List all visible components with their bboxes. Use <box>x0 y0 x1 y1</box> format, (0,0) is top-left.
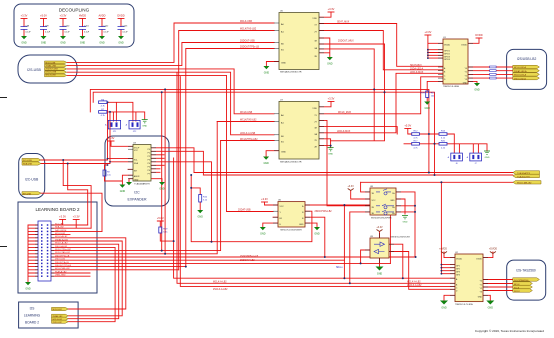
power V bird U8 <box>348 185 355 191</box>
transistor U2 TAS2560 bottom right IC <box>450 252 488 306</box>
wire U6 out A to vertical down <box>305 205 390 278</box>
svg-text:POR: POR <box>420 93 425 95</box>
resistor RA4 series <box>490 77 497 79</box>
wire U5 GND pin left <box>266 62 279 67</box>
page edge tick left upper <box>0 97 7 99</box>
svg-text:VCC: VCC <box>134 150 139 152</box>
svg-text:GP2: GP2 <box>456 269 460 271</box>
svg-text:P0: P0 <box>148 149 150 151</box>
svg-text:GND: GND <box>118 42 124 45</box>
svg-text:0.1uF: 0.1uF <box>104 31 110 33</box>
wire I2C-USB SCL down and across to bus <box>41 159 108 229</box>
svg-text:2SDOUT-USB: 2SDOUT-USB <box>46 68 59 70</box>
svg-text:0.1uF: 0.1uF <box>84 31 90 33</box>
svg-text:MCLK-A-LB2: MCLK-A-LB2 <box>55 235 68 238</box>
connector I2S-TAS2560 tags <box>513 278 540 293</box>
svg-text:SDA-LB2: SDA-LB2 <box>55 226 65 229</box>
resistor RA1 series <box>490 66 497 68</box>
svg-text:2SDAT-LB2: 2SDAT-LB2 <box>53 315 63 318</box>
net tag WCLK right edge <box>513 181 541 185</box>
wire LB row11 long <box>51 259 344 261</box>
svg-text:I2S-USB: I2S-USB <box>27 68 41 72</box>
power V bird U9 <box>376 226 383 232</box>
op-amp U3 I2C expander IC <box>128 143 156 186</box>
wire LB row6 to I2S-LB2 tag4 <box>51 244 119 319</box>
ground decoupling C98 <box>21 36 27 45</box>
svg-text:P1: P1 <box>148 152 150 154</box>
svg-text:0.1uF: 0.1uF <box>65 31 71 33</box>
node learning board row labels <box>55 223 72 276</box>
svg-text:2SDAT-A-LB2: 2SDAT-A-LB2 <box>55 238 69 241</box>
svg-text:TPA2DCLK-T-LB2A: TPA2DCLK-T-LB2A <box>455 303 473 306</box>
ground expander right <box>159 182 165 191</box>
wire U7 LRCLK_MUX to U1 <box>319 73 443 133</box>
connector header learning board 2 <box>35 221 54 281</box>
svg-text:+3.3V: +3.3V <box>261 197 268 201</box>
wire U7 VDD to +3.3V <box>319 102 331 107</box>
svg-text:GP3: GP3 <box>456 272 460 274</box>
wire R7 to jumper J2 and gnd stub <box>107 112 145 121</box>
wire U8 gnd <box>396 199 405 214</box>
svg-text:GND: GND <box>198 216 204 219</box>
svg-text:EXPANDER: EXPANDER <box>128 198 147 202</box>
wire LB row3 to I2S-LB2 tag1 <box>51 231 102 234</box>
wire U6 gnd right <box>305 223 317 227</box>
svg-text:GND: GND <box>425 107 431 110</box>
svg-text:GP4: GP4 <box>456 275 460 277</box>
svg-text:GND: GND <box>264 72 270 75</box>
svg-text:DVDD: DVDD <box>476 259 482 261</box>
svg-text:+DVDD: +DVDD <box>489 248 497 251</box>
wire U2 DVDD bird <box>483 252 493 258</box>
wire U6 out B down to row10 <box>305 217 325 257</box>
ground expander bottom left <box>126 182 132 185</box>
svg-text:P5: P5 <box>148 166 150 168</box>
svg-text:0.1uF: 0.1uF <box>26 31 32 33</box>
svg-text:GND: GND <box>377 273 383 276</box>
ground R16 <box>197 210 203 219</box>
ground U5 right <box>327 57 333 66</box>
wire U2 out rows to TAS tags <box>483 280 513 291</box>
capacitor C101 <box>79 19 86 37</box>
wire expander P5 stub <box>151 164 164 166</box>
resistor RA2 series <box>490 70 497 72</box>
svg-text:I2C: I2C <box>134 191 140 195</box>
wire bus drop to expander SDA <box>110 112 133 162</box>
ground U5 left <box>263 66 269 75</box>
svg-text:GND: GND <box>441 307 447 310</box>
svg-text:0.1uF: 0.1uF <box>45 31 51 33</box>
wire LB row2 to +3.3V and up <box>51 220 91 229</box>
svg-text:MCLK-USB: MCLK-USB <box>46 62 57 64</box>
svg-text:GPIO4: GPIO4 <box>444 59 450 61</box>
svg-text:TPA2DCLK-LB2A: TPA2DCLK-LB2A <box>443 85 459 88</box>
wire U8 top pin loop to net line <box>361 182 370 192</box>
svg-text:+3.3V: +3.3V <box>348 185 355 188</box>
ground decoupling C103 <box>118 36 124 45</box>
node capacitor value labels <box>26 25 129 33</box>
svg-text:DAC-LB2-M: DAC-LB2-M <box>55 229 66 232</box>
connector J2 I2C-USB tags <box>22 158 41 195</box>
svg-text:I2S-TAS2560: I2S-TAS2560 <box>516 269 536 273</box>
wire U9 out2 to TAS row4 <box>389 252 455 290</box>
svg-text:AVDD: AVDD <box>98 14 105 18</box>
ground R15 <box>424 102 430 111</box>
svg-text:VDD: VDD <box>312 108 317 110</box>
svg-text:SDAT_MUX: SDAT_MUX <box>337 21 350 24</box>
wire LB row10 long <box>51 256 416 258</box>
wire I2S-USB tag1 to U5 pin MCLK-USB <box>67 23 274 62</box>
wire LB row9 down to IC4 row <box>51 122 455 279</box>
power +3.3V learning board 2 <box>73 215 80 220</box>
wire LB row8 down to IC4 row <box>51 77 455 287</box>
wire U9 gnd stub <box>379 258 381 267</box>
svg-text:DVDD: DVDD <box>117 14 124 18</box>
svg-text:0.1uF: 0.1uF <box>123 31 129 33</box>
resistor R6 <box>99 99 107 107</box>
svg-text:2SDOUT/TP5-LB: 2SDOUT/TP5-LB <box>55 265 72 267</box>
svg-text:WCLK-USB: WCLK-USB <box>46 74 57 76</box>
wire expander P3 <box>151 157 164 159</box>
svg-text:GND: GND <box>281 63 286 65</box>
svg-text:WCLK_MUX: WCLK_MUX <box>338 112 351 114</box>
power +5.0V R19 <box>157 216 164 227</box>
wire U2 VDDA bird <box>444 252 455 258</box>
svg-text:HVDD: HVDD <box>79 14 86 18</box>
I2S LEARNING BOARD 2 box <box>19 302 79 328</box>
svg-text:WCLK/TAS-LB2: WCLK/TAS-LB2 <box>240 119 257 122</box>
wire U9 input from row12 <box>361 250 370 263</box>
svg-text:WCLK/TAS-LB2: WCLK/TAS-LB2 <box>55 251 71 254</box>
wire I2S-USB tag5 to U7 WCLK-USB <box>67 75 273 211</box>
svg-text:GND: GND <box>299 224 304 226</box>
svg-text:SN74AUC2G53DCTR: SN74AUC2G53DCTR <box>280 160 302 163</box>
svg-text:MCLK-A-LB2: MCLK-A-LB2 <box>407 281 421 284</box>
svg-text:Copyright © 2016, Texas Instru: Copyright © 2016, Texas Instruments Inco… <box>475 329 544 333</box>
wire LB row12 long to U6 vertical <box>51 262 390 264</box>
wire expander P6 to TCA-SDA tag <box>151 169 513 173</box>
capacitor C103 <box>118 19 125 37</box>
wire R12 to R13 <box>419 133 439 135</box>
svg-text:WCLK-LB2: WCLK-LB2 <box>53 319 62 321</box>
svg-text:GND: GND <box>263 162 269 165</box>
svg-text:P7: P7 <box>148 173 150 175</box>
svg-text:Y3: Y3 <box>465 79 467 81</box>
svg-text:2SDO-LB2-A: 2SDO-LB2-A <box>514 77 526 80</box>
resistor R19 <box>159 227 169 234</box>
transistor U6 analog mux IC <box>273 200 310 232</box>
ground U7 OE pins <box>328 148 334 156</box>
wire U1 out4 <box>468 77 513 79</box>
jumper J3 <box>105 120 120 132</box>
svg-text:SDA-x: SDA-x <box>336 266 343 269</box>
svg-text:WCLK/TP6x-LB2: WCLK/TP6x-LB2 <box>55 249 72 251</box>
wire LB row13 <box>51 267 186 277</box>
wire U7 WCLK_MUX to U1 <box>319 77 443 114</box>
wire U5 2SDOUT_MUX down <box>319 44 385 141</box>
svg-text:I2S/USB LB2: I2S/USB LB2 <box>517 57 537 61</box>
svg-text:INT-USB: INT-USB <box>23 193 32 195</box>
svg-text:+5.0V: +5.0V <box>157 216 164 220</box>
svg-text:LEARNING BOARD 2: LEARNING BOARD 2 <box>35 207 80 212</box>
svg-text:2SDO/TP5xxx-LB: 2SDO/TP5xxx-LB <box>240 256 259 258</box>
wire IC2 pin B1 stub <box>221 140 274 142</box>
ground U7 left <box>263 157 269 166</box>
I2S-TAS2560 box <box>507 260 546 300</box>
svg-text:2SDO-A-LB2: 2SDO-A-LB2 <box>55 245 68 248</box>
resistor RA3 series <box>490 73 497 75</box>
svg-text:2SDO-LB2: 2SDO-LB2 <box>53 322 62 324</box>
wire U7 GND pin left <box>266 151 279 157</box>
svg-text:GND: GND <box>485 157 490 159</box>
power +3.3V decoupling 3 <box>60 14 67 19</box>
svg-text:2SDOUT/A-LB: 2SDOUT/A-LB <box>55 261 69 264</box>
svg-text:+3.3V: +3.3V <box>328 7 335 11</box>
svg-text:+3.3V: +3.3V <box>73 215 80 219</box>
wire U1 out3 <box>468 73 513 75</box>
op-amp U9 dual buffer IC <box>365 233 410 263</box>
wire R13 to jumper <box>447 134 454 153</box>
wire U1 out2 <box>468 70 513 72</box>
wire U9 vcc stub <box>379 232 381 239</box>
ground U8 <box>402 216 408 224</box>
svg-text:TCA-SCL/TP2: TCA-SCL/TP2 <box>517 175 531 178</box>
resistor R17 <box>412 141 420 150</box>
svg-text:Y0: Y0 <box>480 281 482 283</box>
svg-text:SDA-USB: SDA-USB <box>23 163 33 166</box>
svg-text:SCLK: SCLK <box>514 287 520 289</box>
wire expander P2 <box>151 154 164 156</box>
I2S/USB LB2 box <box>507 49 547 89</box>
svg-text:LRB2-GND: LRB2-GND <box>55 275 66 277</box>
ground decoupling C99 <box>41 36 47 45</box>
svg-text:LRCLK-MUX: LRCLK-MUX <box>410 72 424 74</box>
svg-text:GND: GND <box>99 42 105 45</box>
svg-text:2SDOUT-USB: 2SDOUT-USB <box>240 41 255 43</box>
ground U6 right <box>314 227 320 236</box>
svg-text:SN74CBTLV3126PWR: SN74CBTLV3126PWR <box>371 217 392 219</box>
wire I2C-USB INT to expander <box>41 193 102 231</box>
power AVDD decoupling 5 <box>98 14 105 19</box>
svg-text:MCLK-USB: MCLK-USB <box>240 21 252 23</box>
svg-text:GND: GND <box>120 190 126 193</box>
wire I2S-USB tag3 to U5 pin 2SDOUT-USB <box>67 69 274 114</box>
wire bus drop to expander SCL <box>108 102 134 158</box>
wire U2 gpio column <box>441 182 455 273</box>
svg-text:Y2: Y2 <box>465 75 467 77</box>
svg-text:LRCLK-MUX: LRCLK-MUX <box>337 131 351 133</box>
svg-text:DVDD: DVDD <box>475 33 482 37</box>
wire U7 out4 to U8 vcc pin <box>319 139 331 148</box>
svg-text:2SDA-LB2-A: 2SDA-LB2-A <box>410 68 424 71</box>
op-amp U7 buffer IC middle <box>274 99 324 159</box>
capacitor C98 <box>21 19 28 37</box>
wire R17 to R20 <box>419 143 439 145</box>
svg-text:VDD: VDD <box>312 18 317 20</box>
svg-text:1.0k: 1.0k <box>107 174 111 176</box>
wire U6 E pin to gnd <box>263 223 278 227</box>
ground U1 right <box>474 83 480 92</box>
wire expander P4 stub <box>151 162 212 242</box>
svg-text:+3.3V: +3.3V <box>328 97 335 101</box>
power +5.0V decoupling 2 <box>40 14 47 19</box>
svg-text:SN74AUC2G53DCTR: SN74AUC2G53DCTR <box>280 71 302 74</box>
svg-text:2SDAT/TAS-LB2: 2SDAT/TAS-LB2 <box>315 210 333 213</box>
wire learning board gnd bus <box>28 225 38 282</box>
svg-text:GND: GND <box>260 233 266 236</box>
svg-text:2SDAT-USB: 2SDAT-USB <box>46 64 57 67</box>
svg-text:2SDO/A?-LB2: 2SDO/A?-LB2 <box>240 259 255 262</box>
jumper J4 <box>126 120 140 132</box>
wire U8 vcc from power <box>351 191 370 199</box>
page edge tick left lower <box>0 246 7 248</box>
svg-text:Y0: Y0 <box>465 68 467 70</box>
svg-text:P3: P3 <box>148 159 150 161</box>
svg-text:WCLK/TP6x-LB2: WCLK/TP6x-LB2 <box>240 139 258 141</box>
ground U9 <box>376 267 384 276</box>
decoupling group box <box>14 4 134 47</box>
ground expander left <box>119 185 125 194</box>
svg-text:PLAY-A-LB2: PLAY-A-LB2 <box>55 270 67 273</box>
svg-text:+3.3V: +3.3V <box>424 30 431 34</box>
svg-text:VDDA: VDDA <box>456 258 462 261</box>
svg-text:P6: P6 <box>148 170 150 172</box>
svg-text:SN74LVC2G07DCKR: SN74LVC2G07DCKR <box>391 237 411 239</box>
svg-text:GND: GND <box>314 233 320 236</box>
svg-text:GND: GND <box>159 188 165 191</box>
capacitor C102 <box>99 19 106 37</box>
net tag TCA-SCL right edge <box>513 174 540 178</box>
power +5.0V pullups <box>404 124 411 129</box>
wire I2C riser to row9 <box>164 89 166 253</box>
power +3.3V U1 <box>424 30 431 35</box>
wire I2C-USB SDA down and across to bus <box>41 162 110 225</box>
svg-text:GND: GND <box>142 126 147 128</box>
power +3.3V U6 <box>261 197 268 202</box>
svg-text:+3.3V: +3.3V <box>59 215 66 219</box>
ground decoupling C100 <box>60 36 66 45</box>
svg-text:MCLK-LB2: MCLK-LB2 <box>55 233 66 235</box>
svg-text:GND: GND <box>488 307 494 310</box>
svg-text:WCLK: WCLK <box>514 291 520 293</box>
svg-text:WCLK-LB2-A: WCLK-LB2-A <box>514 74 527 77</box>
connector I2S/USB LB2 tags <box>513 65 540 80</box>
svg-text:Y2: Y2 <box>480 288 482 290</box>
svg-text:GND: GND <box>474 89 480 92</box>
svg-text:LRCLK-A-USB: LRCLK-A-USB <box>240 132 256 135</box>
wire U8 out 1A to vertical <box>396 192 415 257</box>
svg-text:SCL: SCL <box>134 160 138 162</box>
I2C EXPANDER box <box>105 136 169 206</box>
resistor R8 expander addr <box>103 170 111 176</box>
svg-text:MCLK: MCLK <box>514 284 520 286</box>
svg-text:Y3: Y3 <box>480 292 482 294</box>
ground flat jumpers right <box>484 151 490 159</box>
svg-text:+AVDD: +AVDD <box>439 248 447 251</box>
wire net line y182 to WCLK tag <box>361 181 513 183</box>
net tag TCA-SDA right edge <box>513 171 540 175</box>
transistor U1 TAS2560 top right IC <box>438 37 473 88</box>
wire SCL bus horizontal <box>90 89 429 172</box>
wire R16 pulldown from bus line <box>191 188 200 210</box>
power +3.3V U5 <box>328 7 335 12</box>
svg-text:+3.3V: +3.3V <box>376 226 383 229</box>
svg-text:Y1: Y1 <box>465 72 467 74</box>
svg-text:LEARNING: LEARNING <box>24 314 41 318</box>
svg-text:+5.0V: +5.0V <box>404 124 411 128</box>
svg-text:+3.3V: +3.3V <box>108 136 115 140</box>
svg-text:2SDOUT_MUX: 2SDOUT_MUX <box>338 41 354 43</box>
power +3.3V decoupling 1 <box>21 14 28 19</box>
resistor R13 <box>439 131 447 140</box>
svg-text:DOUT/TAS2560: DOUT/TAS2560 <box>514 279 529 282</box>
wire U1 +3.3V rail and gpio column <box>428 35 443 58</box>
svg-text:I2C-USB: I2C-USB <box>25 178 39 182</box>
wire U5 OE pins to gnd <box>319 38 330 57</box>
svg-text:GND: GND <box>80 42 86 45</box>
svg-text:2SCLK-A-LB2: 2SCLK-A-LB2 <box>213 288 228 291</box>
svg-text:Y1: Y1 <box>480 285 482 287</box>
svg-text:2SCLK-A-LB2: 2SCLK-A-LB2 <box>407 284 422 287</box>
wire LB row4 to I2S-LB2 tag2 <box>51 238 126 309</box>
wire U5 VDD to +3.3V <box>319 12 331 17</box>
wire U1 out1 to series R <box>468 66 513 68</box>
wire U6 left pin3 stub <box>273 216 278 218</box>
svg-text:GPIO3: GPIO3 <box>444 56 450 58</box>
resistor R15 POR <box>420 91 436 98</box>
svg-text:TCA6408ARGTR: TCA6408ARGTR <box>134 183 150 186</box>
svg-text:LRCLK-USB: LRCLK-USB <box>46 71 57 73</box>
svg-text:MCLK/TAS-LB2: MCLK/TAS-LB2 <box>240 28 257 31</box>
svg-text:GND: GND <box>463 82 468 84</box>
wire U8 3A to vertical <box>396 211 415 213</box>
wire expander P7 to TCA-SCL tag <box>151 172 513 175</box>
svg-text:GPIO1: GPIO1 <box>444 51 450 53</box>
svg-text:2SDO/TP5x-LB: 2SDO/TP5x-LB <box>55 255 70 257</box>
wire R17 left stub <box>404 143 412 145</box>
svg-text:GND: GND <box>403 222 408 224</box>
svg-text:GND: GND <box>60 42 66 45</box>
wire expander addr resistor to gnd <box>105 165 134 185</box>
svg-text:GND: GND <box>281 152 286 154</box>
connector J5 I2S learning board tags <box>52 307 69 324</box>
I2S-USB connector box <box>18 55 77 83</box>
svg-text:2SDAT-USB: 2SDAT-USB <box>238 209 251 212</box>
power +3.3V U7 <box>328 97 335 102</box>
wire U7 out2 to U8 pin <box>319 120 370 205</box>
svg-text:GND: GND <box>478 296 483 298</box>
wire R20 to jumper J4 and gnd <box>447 144 487 153</box>
wire U5 SDAT_MUX to U1 <box>319 24 443 67</box>
svg-text:GND: GND <box>328 154 333 156</box>
LEARNING BOARD 2 box <box>18 202 97 293</box>
wire U5 pin4 2SDOUT/TP5-LB from row12 vertical <box>186 49 274 267</box>
ground U6 left <box>260 227 266 236</box>
svg-text:MCLK/TAS-LB2: MCLK/TAS-LB2 <box>55 267 70 270</box>
svg-text:VCC: VCC <box>372 200 377 202</box>
wire U1 gnd right <box>468 81 477 83</box>
ground decoupling C101 <box>80 36 86 45</box>
svg-text:GND: GND <box>21 42 27 45</box>
wire R6 to jumper J1 <box>107 102 133 121</box>
ground learning board <box>25 282 31 291</box>
op-amp U5 buffer IC top middle <box>274 11 324 70</box>
wire LB row1 to +3.3V and up <box>51 220 88 226</box>
svg-text:GPIO2: GPIO2 <box>444 54 450 56</box>
power +3.3V learning board 1 <box>59 215 66 220</box>
svg-text:MCLK-A-LB2: MCLK-A-LB2 <box>213 281 227 284</box>
svg-text:ADDR: ADDR <box>134 175 140 178</box>
